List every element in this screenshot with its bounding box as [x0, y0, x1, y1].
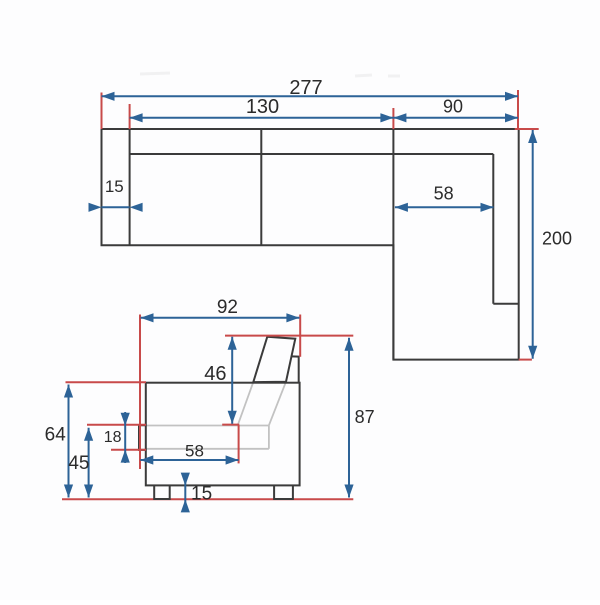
hidden seat top line [146, 425, 269, 427]
dim 15 line (legs, outside arrows) [184, 474, 186, 512]
extension line floor (red) [62, 498, 353, 500]
dim 92 line [141, 317, 300, 319]
svg-text:130: 130 [246, 96, 279, 118]
extension line bottom right (200) [519, 359, 532, 361]
svg-text:45: 45 [68, 453, 89, 474]
dim 18 line (outside arrows) [124, 412, 126, 463]
reference bracket vertical (46/58) [238, 425, 240, 464]
dim 64 line [68, 385, 70, 498]
extension line x=140 (92/58) [139, 315, 141, 470]
faint watermark smudges [140, 73, 400, 76]
hidden seat bottom line [146, 448, 269, 450]
svg-text:90: 90 [443, 97, 463, 117]
chaise backrest seam bottom [493, 303, 518, 305]
svg-text:15: 15 [191, 484, 212, 505]
sofa outer L-shape outline [102, 129, 519, 360]
chaise seam vertical [392, 129, 394, 360]
svg-text:277: 277 [289, 77, 322, 99]
red extension lines, top view [102, 90, 539, 360]
svg-text:64: 64 [45, 425, 67, 446]
svg-text:58: 58 [185, 441, 204, 460]
extension line left (277) [101, 93, 103, 130]
dim texts, top view [105, 77, 572, 249]
sofa body rectangle [146, 383, 300, 486]
dim 58 line (chaise seat) [395, 206, 494, 208]
dim 200 line [532, 130, 534, 359]
extension line seat top (45/18) [87, 424, 146, 426]
blue dimensions, top view [89, 92, 538, 359]
extension line x=300 (92) [299, 315, 301, 357]
hidden seat right line [268, 426, 270, 449]
dim 58 line (seat depth) [140, 459, 238, 461]
grey hidden lines (seat cushion / folded position) [146, 382, 286, 449]
sofa side view black outline [139, 337, 300, 499]
svg-text:87: 87 [355, 407, 375, 427]
seat division seam [260, 129, 262, 245]
svg-text:92: 92 [217, 297, 238, 318]
dim 130 line [130, 117, 394, 119]
blue dimensions, side view [64, 313, 354, 512]
dim 90 line [393, 117, 518, 119]
dim 45 line [88, 428, 90, 498]
extension line top right (200) [515, 128, 539, 130]
svg-text:18: 18 [104, 429, 122, 446]
svg-text:200: 200 [542, 229, 572, 249]
dim 15 line (arm width, outside arrows) [102, 206, 130, 208]
extension line right (277/90) [517, 90, 519, 129]
svg-text:46: 46 [204, 363, 226, 385]
extension line x=130 (130) [129, 104, 131, 129]
backrest cushion (tilted) [253, 337, 295, 382]
backrest seam horizontal [130, 153, 494, 155]
left leg [154, 485, 170, 499]
backrest step edge [292, 356, 299, 382]
reference bracket horizontal (46/58) [222, 424, 239, 426]
hidden backrest slant left [238, 382, 254, 425]
dim 277 line [102, 95, 519, 97]
side trim bump [139, 425, 146, 450]
svg-text:58: 58 [434, 183, 454, 203]
red extension lines, side view [66, 315, 354, 470]
right leg [274, 485, 293, 499]
dim texts, side view [45, 297, 375, 505]
dim 46 line [231, 337, 233, 424]
chaise backrest seam vertical [492, 154, 494, 304]
extension line sofa top (64) [66, 381, 147, 383]
extension line x=393 (130/90) [392, 108, 394, 129]
extension line seat bottom (18) [111, 449, 146, 451]
extension line backrest top (87/46) [225, 335, 353, 337]
left armrest seam [129, 129, 131, 245]
hidden backrest slant right [269, 382, 286, 426]
svg-text:15: 15 [105, 177, 124, 196]
dim 87 line [348, 338, 350, 498]
